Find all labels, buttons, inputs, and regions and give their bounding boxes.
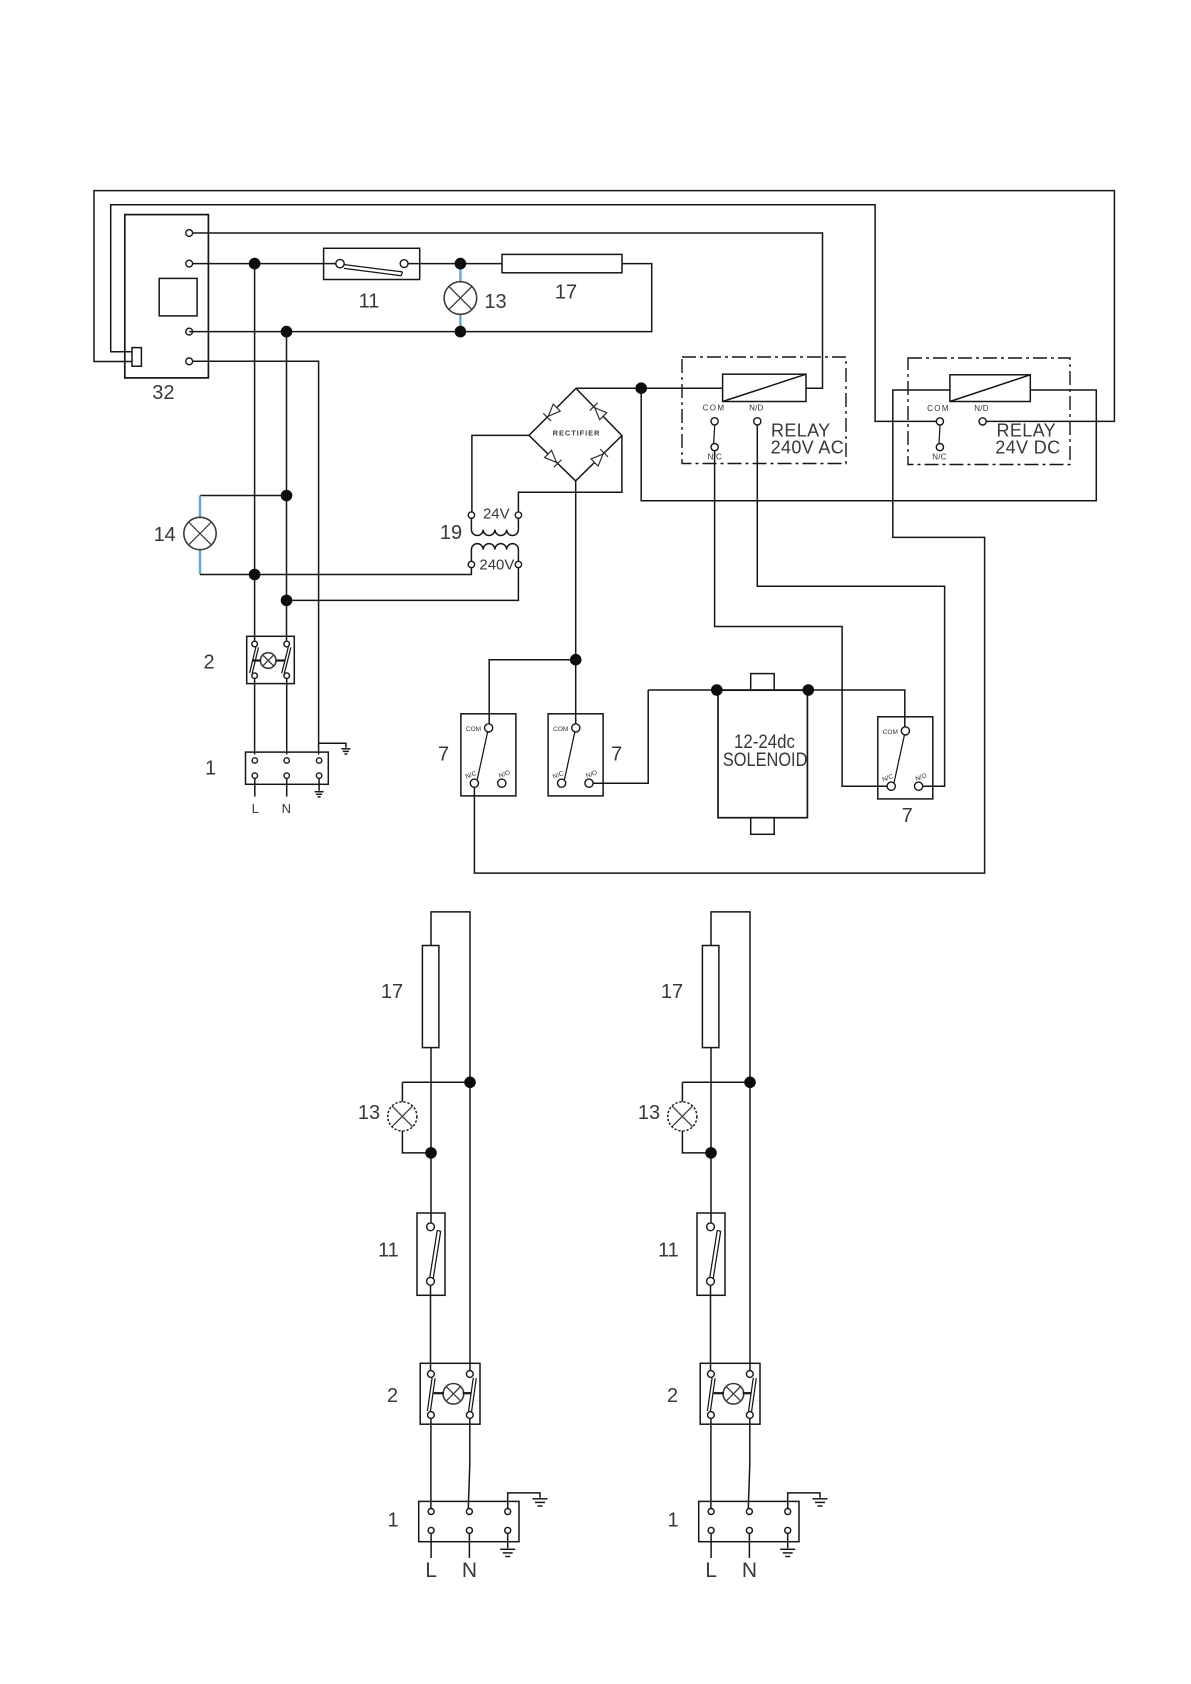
wire relay 240VAC N/C to switch 7c N/C [715, 451, 888, 787]
lamp 13 blue stub top [459, 264, 461, 282]
switch 2 terminal BR [284, 673, 290, 679]
svg-text:COM: COM [883, 729, 898, 736]
wire switch 2 BL to terminal block [254, 679, 256, 755]
svg-text:24V: 24V [483, 506, 510, 523]
wire earth tail [318, 778, 320, 790]
wire rectifier right AC input to transformer 24V right [518, 436, 622, 512]
switch 11 lever [430, 1231, 441, 1279]
wire block ground branch [508, 1493, 540, 1509]
wire resistor 17 right loop down to bottom row [189, 264, 652, 332]
relay 24VDC COM terminal [936, 418, 943, 425]
relay 24VDC coil [950, 375, 1030, 402]
junction dot 240V return on N column [281, 595, 293, 607]
wire switch 7b N/O riser to solenoid rail [593, 690, 648, 783]
junction dot lamp bottom [425, 1147, 437, 1159]
svg-text:240V: 240V [479, 557, 514, 574]
switch 7a lever [477, 732, 487, 779]
diode bottom-left [544, 450, 561, 467]
rectifier bridge diamond [529, 388, 622, 481]
box 32 terminal 1 [186, 230, 193, 237]
box 32 terminal 3 [186, 328, 193, 335]
bottom-left lamp circuit [358, 912, 548, 1582]
relay 240VAC COM terminal [711, 418, 718, 425]
wire earth tail [507, 1533, 509, 1548]
wire lamp 13 bottom branch [402, 1131, 431, 1153]
transformer 19 primary coil (24V) [471, 518, 518, 535]
wire ground branch from T4 column [319, 743, 346, 748]
switch 7b N/C terminal [558, 779, 566, 787]
switch 2 left lever [427, 1378, 435, 1412]
svg-text:SOLENOID: SOLENOID [723, 750, 808, 771]
ground symbol below block 1 [315, 792, 324, 797]
switch 2 right tick [276, 659, 285, 661]
wire N tail [286, 778, 288, 796]
switch 11 top terminal [427, 1223, 435, 1231]
junction dot switch 7 feed [570, 654, 582, 666]
box 32 inner square [159, 278, 197, 316]
switch 11 lever [344, 265, 403, 276]
switch 7a COM terminal [485, 724, 493, 732]
relay 240VAC N/D terminal [754, 418, 761, 425]
switch 2 left tick [252, 659, 260, 661]
terminal block 1 (top) [246, 752, 329, 784]
block 1 terminal bottom E [316, 773, 321, 778]
svg-text:11: 11 [359, 290, 380, 312]
svg-text:7: 7 [438, 744, 449, 766]
switch 11 terminal right [400, 260, 408, 268]
svg-text:1: 1 [205, 757, 216, 779]
switch 2 lamp [443, 1384, 464, 1405]
lamp 14 blue stub bottom [199, 550, 201, 575]
switch 7a N/O terminal [498, 779, 506, 787]
switch 2 terminal TR [466, 1371, 473, 1378]
resistor 17 (top) [502, 254, 622, 272]
wire resistor to switch 11 [430, 1048, 432, 1223]
switch 7b COM terminal [572, 724, 580, 732]
switch 7c lever [894, 735, 904, 782]
solenoid bottom tab [751, 818, 775, 835]
svg-text:2: 2 [387, 1385, 398, 1407]
lamp 13 (dashed) [388, 1102, 417, 1131]
wire box32 T1 to relay 240VAC coil right [189, 233, 822, 388]
junction dot T3 column [281, 326, 293, 338]
junction dot lamp14 top on N column [281, 490, 293, 502]
svg-text:N/D: N/D [974, 404, 988, 413]
switch 7c N/O terminal [915, 782, 923, 790]
wire top rail 2 (box 32 connector to relay 24VDC COM) [111, 205, 937, 422]
wire solenoid top rail [648, 690, 905, 727]
wire switch 2 BR to block [468, 1419, 470, 1509]
switch 2 terminal BL [252, 673, 258, 679]
block 1 terminal top L [252, 758, 257, 763]
block 1 terminal bottom N [284, 773, 289, 778]
switch 11 bottom terminal [427, 1277, 435, 1285]
block terminals bottom [428, 1527, 434, 1533]
switch 2 left tick [434, 1392, 444, 1394]
svg-text:7: 7 [902, 805, 913, 827]
svg-text:1: 1 [387, 1510, 398, 1532]
wire box32 T2 to switch 11 [189, 263, 336, 265]
switch 7c N/C terminal [887, 782, 895, 790]
switch 11 box [417, 1213, 445, 1295]
switch 2 terminal TR [284, 641, 290, 647]
diode bottom-right [591, 449, 608, 466]
wire switch 2 BR to terminal block [286, 679, 288, 755]
block terminals top [428, 1509, 434, 1515]
transformer terminal 24V right [515, 512, 521, 518]
wire switch 11 to resistor 17 [408, 263, 502, 265]
ground symbol (top right of block 1) [341, 749, 350, 754]
block 1 terminal top N [284, 758, 289, 763]
relay 24VDC N/C terminal [936, 444, 943, 451]
wire lamp 14 bottom / L column to transformer 240V left [200, 568, 471, 575]
svg-text:COM: COM [703, 404, 726, 413]
svg-text:N/C: N/C [932, 453, 946, 462]
svg-text:N: N [282, 801, 291, 816]
switch 2 right lever [469, 1378, 477, 1412]
switch 7a N/C terminal [470, 779, 478, 787]
wire L tail [430, 1533, 432, 1558]
ground symbol (upper) [533, 1499, 548, 1506]
svg-text:13: 13 [358, 1102, 380, 1124]
svg-text:COM: COM [553, 726, 568, 733]
relay 240VAC coil [723, 374, 806, 401]
switch 2 (top) box [247, 636, 295, 683]
wire rectifier left AC input to transformer 24V left [472, 435, 529, 512]
switch 7a box [461, 714, 516, 796]
svg-text:13: 13 [484, 291, 506, 313]
svg-text:RECTIFIER: RECTIFIER [553, 428, 601, 437]
svg-text:N/O: N/O [585, 769, 598, 780]
switch 2 terminal TL [252, 641, 258, 647]
wire L tail [254, 778, 256, 796]
relay 24VDC lever COM-NC [939, 425, 940, 444]
terminal block 1 [419, 1501, 519, 1541]
lamp 13 (top) [444, 282, 477, 315]
bottom-right lamp circuit (copy of bottom-left) [638, 912, 828, 1582]
wire top rail 1 (box 32 connector to relay 24VDC N/D) [94, 191, 1114, 422]
junction dot lamp top [464, 1077, 476, 1089]
junction dot lamp14 bottom on L column [249, 569, 261, 581]
switch 7c box [878, 717, 933, 799]
wire rectifier bottom to switch 7 COM column [575, 481, 577, 724]
svg-text:24V DC: 24V DC [995, 438, 1060, 458]
switch 7b N/O terminal [585, 779, 593, 787]
wire branch to switch 7a COM [489, 660, 576, 724]
block 1 terminal bottom L [252, 773, 257, 778]
wire DC+ loop to relay 24VDC coil right [641, 388, 1096, 501]
transformer terminal 24V left [468, 512, 474, 518]
svg-text:7: 7 [611, 744, 622, 766]
wire lamp 14 top to N column [200, 495, 287, 497]
svg-text:240V AC: 240V AC [771, 438, 845, 458]
wire N column (T3 junction down to switch 2) [286, 332, 288, 642]
wire lamp 13 top branch [402, 1082, 470, 1102]
relay 240VAC enclosure (dash-dot) [682, 357, 846, 464]
relay 240VAC lever COM-NC [714, 425, 715, 444]
svg-text:N/O: N/O [498, 769, 511, 780]
svg-text:14: 14 [154, 524, 176, 546]
lamp 14 blue stub top [199, 496, 201, 518]
junction dot lamp13 bottom [455, 326, 467, 338]
transformer terminal 240V left [468, 561, 474, 567]
relay 24VDC N/D terminal [979, 418, 986, 425]
diode top-left [543, 404, 560, 421]
wire rectifier top output to relay 240VAC coil [576, 387, 723, 389]
svg-text:17: 17 [555, 282, 577, 304]
solenoid body [718, 690, 807, 818]
wire switch 11 to switch 2 [430, 1285, 432, 1370]
relay 24VDC enclosure (dash-dot) [908, 358, 1070, 465]
switch 2 left lever [250, 647, 259, 673]
wire N column to transformer 240V right [287, 568, 519, 601]
lamp 14 [184, 517, 216, 549]
wire relay 24VDC coil left to DC- loop [474, 390, 984, 873]
switch 7b box [548, 714, 603, 796]
svg-text:17: 17 [381, 981, 403, 1003]
ground symbol (lower) [500, 1549, 515, 1556]
switch 2 box [420, 1363, 480, 1424]
junction dot T2-switch column [249, 258, 261, 270]
wire switch 2 BL to block [430, 1419, 432, 1509]
wire box32 T4 to terminal block ground terminal [189, 361, 318, 754]
timer box 32 [125, 215, 209, 378]
switch 2 lamp [260, 653, 276, 669]
junction dot solenoid right [803, 684, 815, 696]
block 1 terminal top E [316, 758, 321, 763]
svg-text:32: 32 [152, 382, 174, 404]
resistor 17 (vertical) [422, 946, 439, 1048]
svg-text:N: N [462, 1559, 477, 1582]
switch 11 (top) box [324, 248, 420, 279]
switch 2 terminal BR [466, 1412, 473, 1419]
svg-text:N/D: N/D [749, 404, 763, 413]
svg-text:19: 19 [440, 522, 462, 544]
box 32 side connector [132, 348, 141, 367]
diode top-right [590, 403, 607, 420]
solenoid top tab [751, 674, 775, 691]
switch 2 terminal BL [428, 1412, 435, 1419]
svg-text:11: 11 [378, 1240, 399, 1262]
junction dot solenoid left [711, 684, 723, 696]
junction dot lamp13 top [455, 258, 467, 270]
box 32 terminal 2 [186, 260, 193, 267]
transformer 19 secondary coil (240V) [471, 544, 518, 562]
switch 11 terminal left [336, 259, 344, 267]
svg-text:N/O: N/O [915, 772, 928, 783]
svg-text:2: 2 [203, 651, 214, 673]
switch 2 terminal TL [428, 1371, 435, 1378]
svg-text:L: L [425, 1559, 437, 1582]
wire top hat [431, 912, 470, 1371]
svg-text:L: L [252, 801, 259, 816]
relay 240VAC N/C terminal [711, 444, 718, 451]
switch 7b lever [565, 732, 575, 779]
switch 7c COM terminal [901, 727, 909, 735]
svg-text:COM: COM [466, 726, 481, 733]
junction dot rectifier DC+ [635, 382, 647, 394]
switch 2 right lever [282, 647, 291, 674]
transformer terminal 240V right [515, 561, 521, 567]
svg-text:COM: COM [927, 404, 950, 413]
box 32 terminal 4 [186, 358, 193, 365]
wire relay 240VAC N/D to switch 7c N/O [757, 425, 944, 786]
switch 2 right tick [463, 1392, 472, 1394]
wire L column (T2 junction down to switch 2) [254, 264, 256, 642]
wire N tail [468, 1533, 470, 1558]
lamp 13 blue stub bottom [459, 314, 461, 332]
